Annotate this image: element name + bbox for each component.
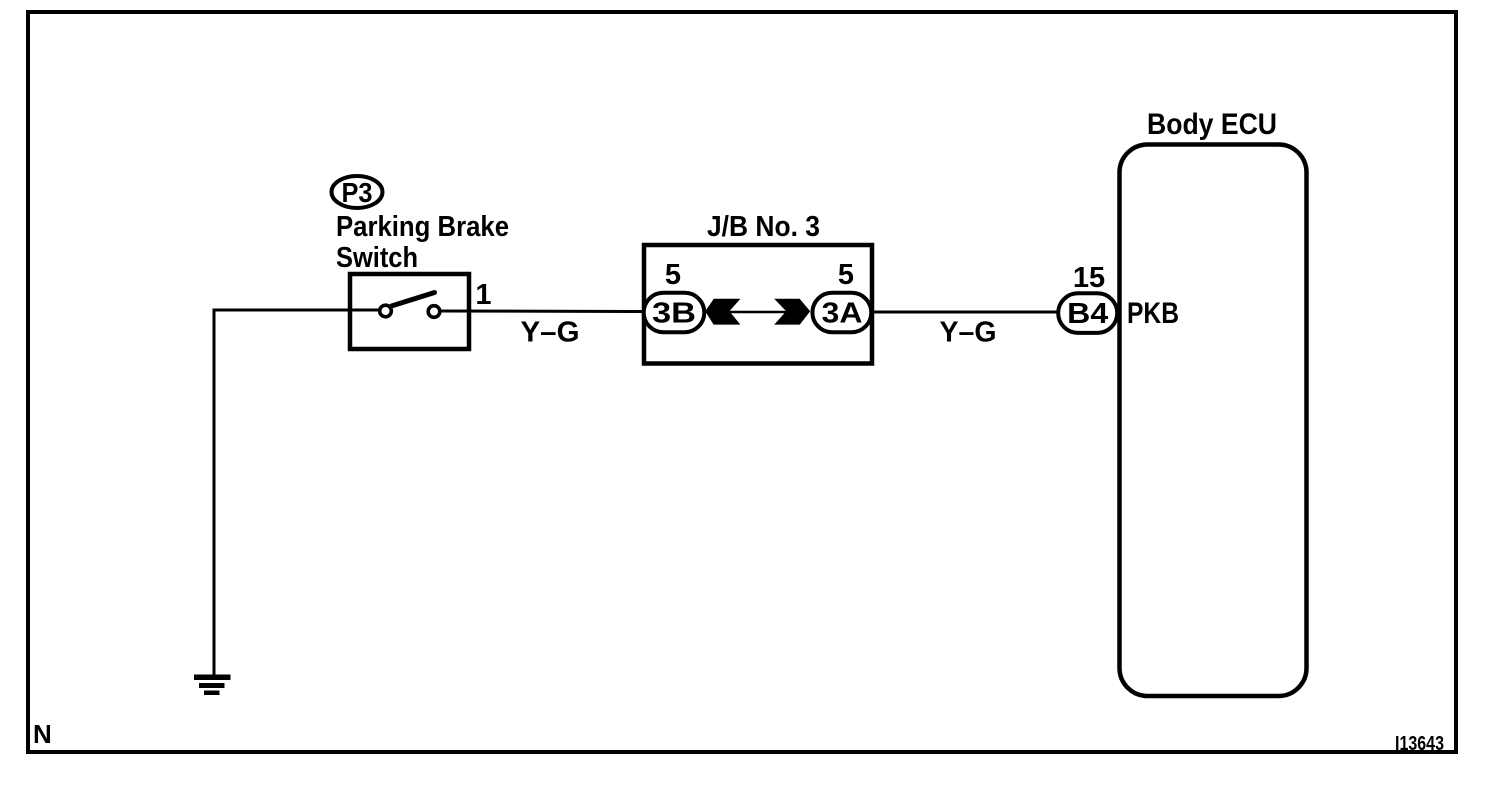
svg-text:I13643: I13643 xyxy=(1395,732,1444,755)
svg-text:3B: 3B xyxy=(652,298,696,330)
svg-text:Y–G: Y–G xyxy=(940,317,997,349)
svg-text:Switch: Switch xyxy=(336,242,418,274)
svg-text:PKB: PKB xyxy=(1127,297,1179,330)
svg-text:Body ECU: Body ECU xyxy=(1147,108,1277,141)
label Parking Brake Switch xyxy=(336,211,509,274)
svg-text:1: 1 xyxy=(475,279,491,311)
wire between arrows xyxy=(708,311,808,314)
arrow right xyxy=(774,299,810,325)
parking brake switch box xyxy=(350,274,469,349)
switch contact left xyxy=(380,305,392,317)
wire: ground riser and run to switch xyxy=(214,310,380,677)
connector 3B oval xyxy=(644,293,705,332)
connector B4 oval xyxy=(1058,293,1117,333)
svg-text:B4: B4 xyxy=(1067,298,1108,330)
svg-text:5: 5 xyxy=(838,259,854,291)
wire: 3A to B4 xyxy=(872,311,1058,314)
svg-text:P3: P3 xyxy=(342,177,373,208)
svg-text:Y–G: Y–G xyxy=(521,317,580,349)
switch lever xyxy=(392,293,435,307)
svg-text:15: 15 xyxy=(1073,262,1105,294)
ground xyxy=(194,675,231,696)
arrow left xyxy=(705,299,740,325)
svg-text:N: N xyxy=(33,719,52,749)
connector code P3 oval xyxy=(332,176,383,208)
svg-text:5: 5 xyxy=(665,259,681,291)
svg-text:J/B No. 3: J/B No. 3 xyxy=(707,211,820,243)
svg-text:Parking Brake: Parking Brake xyxy=(336,211,509,243)
junction block J/B No. 3 box xyxy=(644,245,872,364)
wire: switch to 3B xyxy=(440,310,646,314)
switch contact right xyxy=(428,306,440,318)
Body ECU box xyxy=(1120,145,1307,697)
svg-text:3A: 3A xyxy=(822,298,863,330)
connector 3A oval xyxy=(812,293,871,332)
